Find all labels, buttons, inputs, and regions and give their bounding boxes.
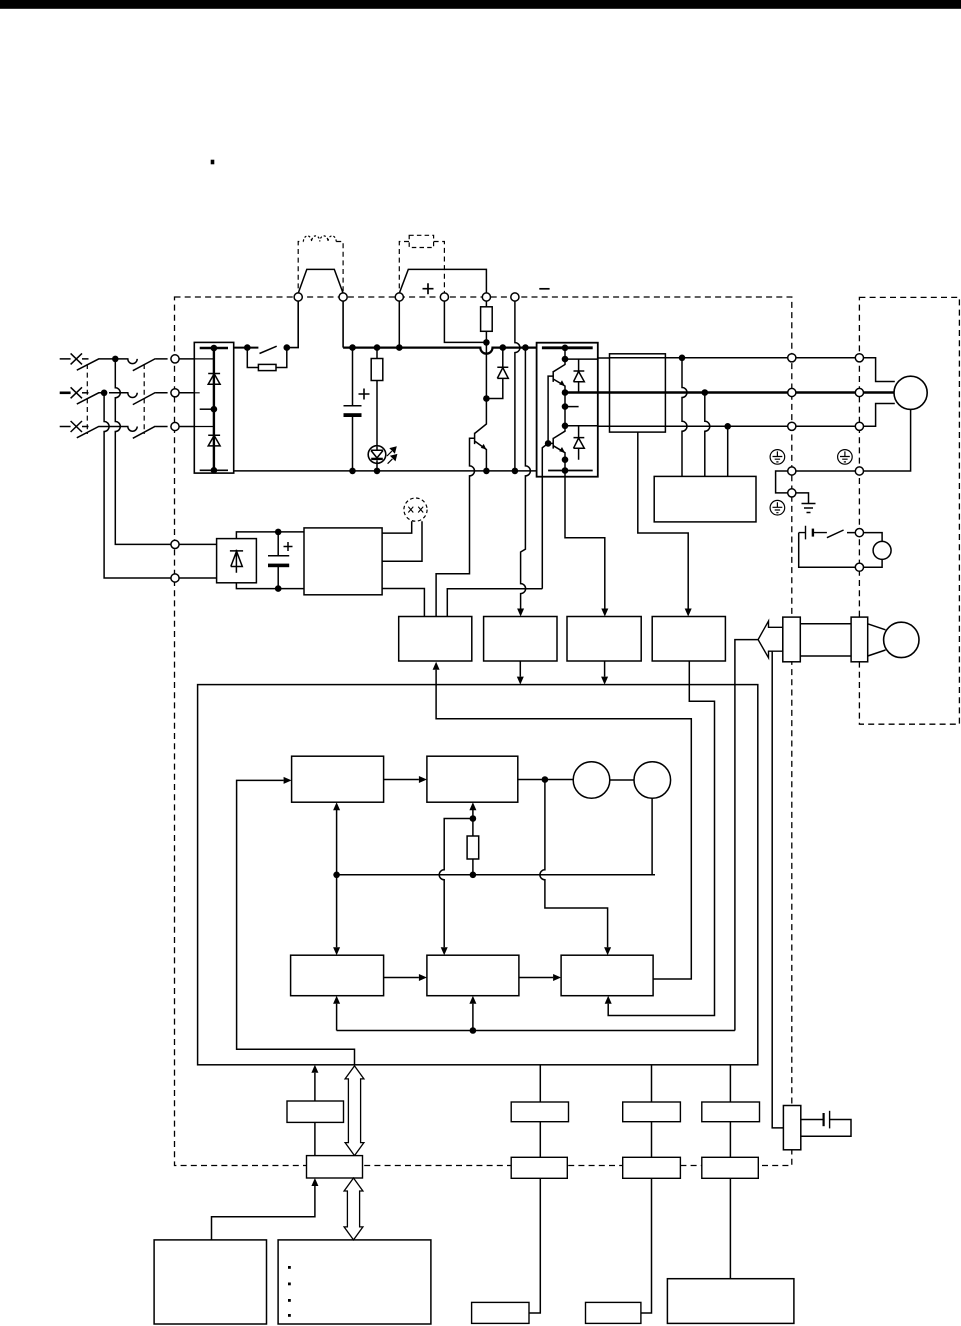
node FWD diode top xyxy=(500,344,507,351)
terminal U inverter xyxy=(788,354,796,362)
rectifier diode D1 xyxy=(208,374,220,385)
P bus from rectifier xyxy=(234,347,259,349)
column 2 wire xyxy=(641,1065,652,1313)
node bleeder top xyxy=(374,344,381,351)
terminal V inverter xyxy=(788,388,796,396)
control cap plus label xyxy=(284,542,293,551)
breaker pole T blade xyxy=(77,427,112,438)
arrow into J top xyxy=(604,947,611,955)
contactor pole T xyxy=(112,426,168,438)
module center leg xyxy=(564,348,566,471)
fuse X mark phase R xyxy=(71,353,82,364)
node rectifier mid xyxy=(211,406,218,413)
wire R tap down with hops xyxy=(115,359,171,545)
node V out xyxy=(562,389,569,396)
arrow into I top xyxy=(441,947,448,955)
terminal box col2 lower xyxy=(623,1157,681,1178)
N bus xyxy=(234,470,537,472)
stray period glyph xyxy=(211,160,215,165)
arrow into H bottom xyxy=(333,996,340,1004)
upper freewheel diode xyxy=(574,359,585,392)
external device box P xyxy=(667,1279,794,1324)
header black bar xyxy=(0,0,961,9)
motor ground wire xyxy=(776,409,911,503)
terminal box col3 lower xyxy=(702,1157,759,1178)
node control supply P feed xyxy=(522,344,529,351)
control block H xyxy=(291,955,384,996)
current detect box C xyxy=(567,617,641,662)
terminal N xyxy=(511,293,519,301)
wire K up arrow xyxy=(314,1073,316,1101)
terminal U motor xyxy=(855,354,863,362)
arrow into PWM box J bottom xyxy=(605,996,612,1004)
wire P/+ riser xyxy=(398,301,400,348)
breaker pole S blade xyxy=(77,393,104,404)
contactor pole R xyxy=(115,359,167,371)
wire F bottom chain xyxy=(472,810,474,875)
control block I xyxy=(427,955,519,996)
node tap S xyxy=(101,390,108,397)
keypad list dots xyxy=(288,1266,291,1317)
wire P bus feed to control supply, hop over N bus xyxy=(521,348,531,609)
rectifier diode D2 xyxy=(208,435,220,446)
motor lead W xyxy=(864,404,895,427)
filter box col3 upper xyxy=(702,1102,760,1122)
box D output wire xyxy=(608,661,714,1016)
SMPS out to gate drive box xyxy=(382,589,424,617)
hollow bus arrow 1 xyxy=(345,1066,364,1156)
node N leg xyxy=(562,456,569,463)
terminal P/+ xyxy=(395,293,403,301)
contactor pole S xyxy=(109,393,168,405)
parameter unit box Q xyxy=(783,1106,800,1150)
node mid bus resistor xyxy=(470,872,477,879)
wire terminals to rectifier xyxy=(179,359,194,427)
module N bar xyxy=(548,470,593,472)
brake coil loop xyxy=(799,533,882,568)
node module P xyxy=(562,345,569,352)
jumper link P-PR xyxy=(399,269,486,293)
wire to P1 riser xyxy=(287,301,298,348)
encoder cable to parameter unit xyxy=(772,651,783,1128)
feedback bus xyxy=(337,1030,735,1032)
brake resistor PR xyxy=(481,307,493,332)
external device box O1 xyxy=(472,1302,529,1323)
terminal W motor xyxy=(855,422,863,430)
earth ground symbol xyxy=(802,504,816,513)
LED light arrows xyxy=(387,451,392,464)
gate drive harness xyxy=(447,589,542,617)
wire PR resistor down, hop over P bus xyxy=(485,331,487,398)
connector cable pair xyxy=(800,624,851,656)
node module N xyxy=(562,467,569,474)
node U out xyxy=(562,356,569,363)
cooling fan (dashed circle) xyxy=(404,498,427,521)
terminal brake + xyxy=(855,529,863,537)
PE symbol 1 xyxy=(770,450,785,465)
resistor R2 xyxy=(467,836,479,859)
keypad box N xyxy=(278,1240,431,1324)
node N riser join xyxy=(512,468,519,475)
breaker mechanical link (dashed) xyxy=(86,364,88,434)
oscillator circle G1 xyxy=(573,762,610,799)
column 1 wire xyxy=(529,1065,540,1313)
wire S tap down with hop xyxy=(104,393,172,578)
terminal PR xyxy=(482,293,490,301)
node W out xyxy=(562,423,569,430)
rectifier box xyxy=(194,342,233,473)
CT tap U wire with hops xyxy=(682,358,687,477)
control board outline xyxy=(198,685,758,1065)
inverter enclosure dashed border xyxy=(175,297,792,1166)
ground terminal motor xyxy=(855,467,863,475)
control rectifier box xyxy=(217,539,257,583)
temperature detect box D xyxy=(652,617,725,662)
arrow into gate/current box D xyxy=(685,609,692,617)
mid bus xyxy=(337,874,652,876)
module gate bus xyxy=(548,376,553,443)
module box xyxy=(537,343,598,477)
wire bus to H bottom xyxy=(336,1004,338,1031)
arrow E to F xyxy=(384,779,419,781)
node P riser join xyxy=(396,344,403,351)
connector housing 2 xyxy=(851,617,868,662)
jumper link P1-P xyxy=(298,269,343,293)
wire PWM tap to J top with hop xyxy=(540,780,608,948)
P bus (heavy) xyxy=(343,348,536,354)
inrush relay blade xyxy=(260,346,277,353)
wire bus to I bottom xyxy=(472,1004,474,1031)
capacitor C1 plus label xyxy=(359,389,370,400)
rectifier top bar xyxy=(200,347,228,350)
minus label xyxy=(539,288,549,290)
link G1-G2 xyxy=(610,779,634,781)
node control cap bottom xyxy=(275,585,282,592)
wires terminals to control rectifier xyxy=(179,544,217,578)
node inrush right xyxy=(284,344,291,351)
plus label xyxy=(423,283,434,294)
hollow bus arrow 2 xyxy=(344,1178,363,1240)
control block E xyxy=(292,756,384,802)
motor enclosure dashed border xyxy=(859,297,959,724)
control rectifier diode xyxy=(230,550,243,573)
interface box L xyxy=(307,1156,363,1178)
node CT tap U xyxy=(679,355,686,362)
gate drive box A xyxy=(399,617,472,662)
wire G2 to mid bus xyxy=(652,798,655,875)
module gate lead out xyxy=(542,443,548,588)
wire K to L xyxy=(314,1122,316,1155)
control supply terminal 1 xyxy=(171,540,179,548)
arrow into gate drive box A xyxy=(433,662,440,670)
node gate join xyxy=(545,440,552,447)
node rectifier top xyxy=(211,345,218,352)
control DC top wire xyxy=(236,532,304,539)
control DC bottom wire xyxy=(236,583,304,589)
capacitor C1 negative plate xyxy=(344,413,362,417)
arrow into I bottom xyxy=(469,996,476,1004)
battery loop xyxy=(801,1120,851,1137)
brake resistor option dashed box xyxy=(399,242,444,298)
smoothing capacitor C1 xyxy=(344,348,362,471)
lower freewheel diode xyxy=(574,426,585,460)
ground terminal inverter xyxy=(788,467,796,475)
brake resistor option dashed rect xyxy=(409,235,433,247)
contactor mechanical link (dashed) xyxy=(143,364,145,434)
phase V line (thick) xyxy=(565,391,855,393)
breaker pole R blade xyxy=(77,359,116,370)
rectifier center riser xyxy=(213,348,215,470)
PE symbol 2 xyxy=(838,450,853,465)
arrow into current detect drive box xyxy=(601,609,608,617)
node control cap top xyxy=(275,529,282,536)
arrow into L bottom xyxy=(311,1178,318,1186)
encoder lead-in xyxy=(868,624,886,656)
encoder feedback wire xyxy=(735,640,758,1031)
terminal T xyxy=(171,422,179,430)
motor lead U xyxy=(864,358,895,382)
brake transistor Q1 xyxy=(475,399,487,471)
external device box O2 xyxy=(586,1302,641,1323)
control block F xyxy=(427,756,518,802)
DC reactor option dashed box xyxy=(298,242,343,298)
control block J xyxy=(561,955,653,996)
phase S stub to center xyxy=(200,408,214,410)
PWM to gate drive wire xyxy=(436,670,691,979)
control cap C2 xyxy=(268,532,289,589)
brake switch blade xyxy=(827,530,844,538)
terminal + xyxy=(440,293,448,301)
node PWM tap xyxy=(542,776,549,783)
filter box col1 upper xyxy=(511,1102,568,1122)
node cap bottom xyxy=(349,468,356,475)
option unit wire xyxy=(212,1186,315,1240)
brake coil xyxy=(873,541,891,559)
DC reactor coil (dotted scallops) xyxy=(303,236,336,242)
terminal W inverter xyxy=(788,422,796,430)
IGBT upper xyxy=(553,359,565,392)
CT tap W wire xyxy=(727,426,729,476)
phase W line xyxy=(565,425,859,428)
inrush resistor loop xyxy=(247,348,286,368)
arrow into H top xyxy=(333,947,340,955)
current detector box xyxy=(654,476,756,522)
PE symbol 3 xyxy=(770,500,785,515)
module P bar (thick) xyxy=(542,346,593,349)
filter box col2 upper xyxy=(623,1102,681,1122)
motor M xyxy=(894,376,927,409)
node feedback I tap xyxy=(470,1027,477,1034)
terminal R xyxy=(171,355,179,363)
terminal box col1 lower xyxy=(511,1157,567,1178)
arrow I to J xyxy=(519,977,553,979)
arrow into E bottom xyxy=(333,802,340,810)
brake base wire, hop over N bus xyxy=(436,438,475,616)
output filter sense wire xyxy=(638,432,688,609)
wire P riser xyxy=(342,301,344,348)
arrow into voltage detect box xyxy=(517,609,524,617)
rectifier input stubs xyxy=(194,359,214,427)
fuse X mark phase S xyxy=(71,387,82,398)
phase S input wire (thick) xyxy=(60,391,71,394)
mid stub wire xyxy=(565,406,579,408)
node LED bottom xyxy=(374,468,381,475)
bleeder resistor R1 xyxy=(376,348,378,447)
battery xyxy=(799,526,827,540)
CT tap V wire with hop xyxy=(705,393,710,477)
node F chain xyxy=(470,815,477,822)
node brake collector xyxy=(483,395,490,402)
bus interface riser wire xyxy=(237,780,355,1064)
arrow H to I xyxy=(384,977,419,979)
wire + terminal to PR line xyxy=(444,301,486,342)
node inrush left xyxy=(244,344,251,351)
terminal P1 xyxy=(294,293,302,301)
column 3 wire xyxy=(729,1065,731,1279)
phase T input wire xyxy=(60,426,89,428)
terminal brake - xyxy=(855,563,863,571)
terminal V motor xyxy=(855,388,863,396)
node mid stub xyxy=(562,403,569,410)
box C output arrow xyxy=(604,661,606,677)
box B output arrow xyxy=(519,661,521,677)
charge lamp LED xyxy=(368,446,386,464)
node tap R xyxy=(112,356,119,363)
wire N riser, hop over P bus xyxy=(515,301,520,471)
motor lead V thick xyxy=(864,391,895,393)
node brake emitter xyxy=(483,468,490,475)
node PR junction xyxy=(483,339,490,346)
control supply terminal 2 xyxy=(171,574,179,582)
module emitter sense lead xyxy=(565,471,605,609)
switching power supply box xyxy=(304,528,382,595)
terminal P xyxy=(339,293,347,301)
node cap top xyxy=(349,344,356,351)
fuse X mark phase T xyxy=(71,421,82,432)
connector block arrow xyxy=(758,621,783,658)
terminal S xyxy=(171,389,179,397)
arrow into F bottom xyxy=(469,802,476,810)
node rectifier bottom xyxy=(211,467,218,474)
backup battery xyxy=(822,1113,824,1126)
phase R input wire xyxy=(60,358,89,360)
wire E bottom to H top xyxy=(336,810,338,947)
arrow into block E xyxy=(284,777,292,784)
phase U line xyxy=(565,358,859,359)
ground terminal 2 inverter xyxy=(788,489,796,497)
fan wire 2 xyxy=(382,521,422,561)
connector housing 1 xyxy=(783,617,801,662)
fan wire 1 xyxy=(382,521,412,533)
inrush resistor R0 xyxy=(258,364,276,370)
node mid bus left xyxy=(333,872,340,879)
oscillator circle G2 xyxy=(634,762,671,799)
voltage detect box B xyxy=(484,617,557,662)
encoder disc xyxy=(884,622,919,657)
output filter box xyxy=(610,354,666,432)
node CT tap W xyxy=(724,423,731,430)
wire PR terminal to resistor xyxy=(485,301,487,307)
IGBT lower xyxy=(553,426,565,460)
freewheel diode D3 xyxy=(486,348,508,399)
bus buffer box K xyxy=(287,1101,344,1122)
wire F to oscillator circles xyxy=(518,779,573,781)
rectifier bottom bar xyxy=(200,469,228,471)
option unit box M xyxy=(154,1240,266,1324)
node CT tap V xyxy=(702,389,709,396)
wire xyxy=(82,392,89,394)
wire F chain to I top with hop xyxy=(439,819,473,948)
